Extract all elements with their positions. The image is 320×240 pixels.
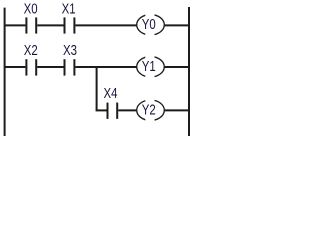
svg-text:X0: X0 — [24, 1, 38, 17]
wire X0 to X1 — [37, 24, 63, 26]
right power rail — [188, 7, 190, 136]
wire coil Y0 to right rail — [165, 24, 191, 26]
svg-text:X4: X4 — [104, 86, 118, 102]
svg-text:Y1: Y1 — [142, 59, 156, 75]
coil Y0 text knockout — [145, 13, 154, 37]
left power rail — [4, 8, 6, 136]
wire rung1 rail to X0 — [4, 24, 25, 26]
contact X1 — [64, 17, 66, 33]
contact X4 — [107, 103, 109, 119]
svg-text:Y0: Y0 — [142, 17, 156, 33]
wire coil Y2 to right rail — [165, 109, 191, 111]
branch wire down from rung2 node — [96, 66, 98, 110]
svg-text:X3: X3 — [63, 43, 77, 59]
wire branch to X4 — [96, 109, 107, 111]
wire rung2 rail to X2 — [4, 66, 25, 68]
svg-text:X2: X2 — [24, 43, 38, 59]
coil Y1 text knockout — [145, 55, 154, 79]
contact X2 — [25, 59, 27, 75]
wire coil Y1 to right rail — [165, 66, 191, 68]
svg-text:Y2: Y2 — [142, 102, 156, 118]
coil Y2 text knockout — [145, 98, 154, 122]
wire X1 to coil Y0 — [75, 24, 136, 26]
contact X0 — [25, 17, 27, 33]
contact X3 — [64, 59, 66, 75]
wire X3 to coil Y1 — [75, 66, 136, 68]
coil Y2 outline — [137, 100, 165, 120]
coil Y1 outline — [137, 57, 165, 77]
wire X4 to coil Y2 — [118, 109, 136, 111]
wire X2 to X3 — [37, 66, 63, 68]
coil Y0 outline — [137, 15, 165, 35]
svg-text:X1: X1 — [62, 1, 76, 17]
